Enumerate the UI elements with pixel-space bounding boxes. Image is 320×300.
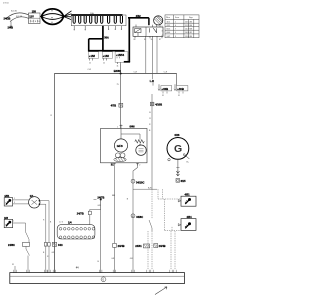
junction node E6/30 <box>120 73 122 75</box>
sender resistor <box>121 134 140 140</box>
connector box +40B right <box>174 84 188 97</box>
switch contact <box>26 232 30 243</box>
svg-text:4: 4 <box>162 35 163 37</box>
svg-text:1: 1 <box>175 21 176 23</box>
fuse box 11/1 <box>71 15 126 26</box>
ground point E <box>101 277 106 282</box>
svg-text:C-R: C-R <box>88 69 92 71</box>
svg-text:+40B: +40B <box>161 87 168 91</box>
svg-text:34/8C: 34/8C <box>136 215 143 219</box>
svg-text:6/46: 6/46 <box>130 125 136 129</box>
sender connector 24/4B <box>113 243 117 247</box>
multi-pin connector strip 1/4 <box>57 221 95 239</box>
svg-text:3: 3 <box>162 31 163 33</box>
svg-text:9: 9 <box>175 32 176 34</box>
lamp switch box 8/3 left <box>4 216 14 228</box>
svg-text:6/25: 6/25 <box>167 29 171 31</box>
svg-text:1: 1 <box>162 22 163 24</box>
svg-text:14 28 68: 14 28 68 <box>185 29 192 31</box>
combination gauge 1/1 <box>29 194 41 208</box>
svg-text:158: 158 <box>32 10 37 13</box>
warning lamp box 4/54 <box>178 215 196 230</box>
svg-text:C-R: C-R <box>164 71 168 73</box>
svg-text:24/6C: 24/6C <box>8 243 15 247</box>
fuse elements <box>73 16 122 23</box>
svg-text:4: 4 <box>175 25 176 27</box>
wire from 31 pin down x152 <box>151 94 153 189</box>
component table top right <box>165 15 199 38</box>
svg-text:1 2 3: 1 2 3 <box>59 222 63 224</box>
dashed links to indicator lamps <box>148 189 181 270</box>
svg-text:Wire: Wire <box>166 16 170 19</box>
svg-text:31: 31 <box>12 264 14 266</box>
fuse output stubs <box>74 26 121 30</box>
wire from feed box to junction <box>120 64 122 74</box>
switch contact near x152 <box>151 189 153 219</box>
svg-text:24/2: 24/2 <box>167 36 171 38</box>
sender unit box 6/46 <box>101 125 148 163</box>
svg-text:24/2B: 24/2B <box>4 16 11 20</box>
svg-text:1/4: 1/4 <box>68 221 72 225</box>
grommet circle hatched <box>154 16 163 27</box>
svg-text:+15/I: +15/I <box>89 54 95 58</box>
cable loom lens <box>42 9 64 25</box>
thick feed wire from fuse <box>102 26 104 52</box>
ground bus bar <box>10 273 185 284</box>
svg-text:E6/30: E6/30 <box>114 69 121 73</box>
wire to sender <box>120 74 122 129</box>
svg-text:8/3: 8/3 <box>4 216 8 220</box>
inline connector 7 34/10C <box>131 179 135 183</box>
thick branch left <box>89 38 104 40</box>
svg-text:24/4B: 24/4B <box>159 244 166 248</box>
relay 2/32 <box>133 15 163 41</box>
feed label box +15I mid <box>102 52 112 65</box>
pump motor with base <box>114 153 126 162</box>
svg-text:14 86 82: 14 86 82 <box>185 32 192 34</box>
fuel gauge sender GF6 <box>114 139 127 152</box>
small connector boxes row left <box>44 243 47 247</box>
svg-text:1/1: 1/1 <box>30 194 34 198</box>
relay thick supply line <box>128 17 149 19</box>
svg-text:2: 2 <box>14 198 15 200</box>
svg-text:11 28 64: 11 28 64 <box>185 25 192 27</box>
inline connector B4/10 <box>150 102 154 106</box>
generator output wire <box>177 159 179 170</box>
arrow off-page under G <box>176 170 179 176</box>
svg-text:2/32: 2/32 <box>167 25 171 27</box>
gauge output wires <box>39 201 49 243</box>
junction node 24/7B <box>100 199 102 201</box>
wires switch to gauge <box>13 200 30 204</box>
svg-text:+15/54: +15/54 <box>116 53 125 57</box>
svg-text:6/46: 6/46 <box>167 32 171 34</box>
svg-text:Fuse: Fuse <box>175 17 179 19</box>
svg-text:3: 3 <box>175 36 176 38</box>
svg-text:30: 30 <box>151 39 153 41</box>
bus entry ticks <box>14 270 176 273</box>
svg-text:11: 11 <box>89 63 91 65</box>
svg-text:11: 11 <box>103 63 105 65</box>
svg-text:G: G <box>174 143 182 155</box>
inline connector 14 34/8C <box>131 214 135 218</box>
left long wire down <box>53 74 55 273</box>
ignition switch box 4/51 left <box>4 194 12 206</box>
svg-text:7: 7 <box>175 29 176 31</box>
sender signal wire <box>133 163 138 273</box>
svg-text:34/10C: 34/10C <box>136 180 144 184</box>
off-page arrow connector 2/4B <box>10 22 12 27</box>
wire switch to column <box>13 223 26 232</box>
thick distribution bar <box>88 50 125 52</box>
svg-text:4/54: 4/54 <box>187 215 193 219</box>
svg-text:24/7B: 24/7B <box>77 212 84 216</box>
svg-text:1: 1 <box>117 127 118 129</box>
wire junction to ground bus <box>100 200 102 273</box>
svg-text:11: 11 <box>117 66 119 68</box>
svg-text:GF6: GF6 <box>117 144 123 148</box>
svg-text:4/7B: 4/7B <box>111 104 117 108</box>
right elbow wire down <box>176 74 178 86</box>
svg-text:B-136: B-136 <box>11 11 18 13</box>
svg-text:2: 2 <box>139 165 140 167</box>
svg-text:E: E <box>103 277 105 281</box>
svg-text:2: 2 <box>162 26 163 28</box>
warning lamp box 4/51 <box>178 193 196 207</box>
svg-text:34C: 34C <box>58 243 63 247</box>
svg-text:C-R: C-R <box>134 71 138 73</box>
sender ground wire <box>113 166 115 244</box>
svg-text:24/4B: 24/4B <box>118 244 125 248</box>
svg-text:R-139: R-139 <box>16 16 23 18</box>
svg-text:24/7B: 24/7B <box>97 195 104 199</box>
svg-text:86: 86 <box>134 39 136 41</box>
wire arc B-139 top-left <box>10 17 29 22</box>
main horizontal wire <box>54 73 176 75</box>
wire battery to loom <box>40 15 42 17</box>
annotation arrow bottom right <box>155 287 167 295</box>
svg-text:2/4B: 2/4B <box>8 26 14 30</box>
svg-text:6/15: 6/15 <box>181 180 186 183</box>
svg-text:2/32: 2/32 <box>136 15 141 18</box>
svg-text:10 15 86: 10 15 86 <box>185 21 192 23</box>
sender rheostat circle <box>136 145 146 155</box>
svg-text:30A: 30A <box>104 37 109 40</box>
svg-text:11/1: 11/1 <box>167 21 171 23</box>
svg-text:1 8 10: 1 8 10 <box>3 3 9 5</box>
fan wires loom to fuse box <box>64 11 72 20</box>
svg-text:3: 3 <box>14 202 15 204</box>
feed label box +15I left <box>88 52 98 65</box>
battery 15B <box>29 10 41 23</box>
wire junction to connector strip <box>90 200 101 212</box>
svg-text:31: 31 <box>178 95 180 97</box>
wire arc B-136 top-left <box>6 13 29 19</box>
svg-text:B-R: B-R <box>148 187 152 189</box>
inline connector 24/4B on dashed wire right <box>154 244 158 248</box>
stub wire far left to bus <box>14 266 16 273</box>
svg-text:24/31: 24/31 <box>135 244 142 248</box>
relay output wires <box>145 38 147 73</box>
svg-text:+40B: +40B <box>177 87 184 91</box>
inline connector square 24/7B <box>88 211 91 214</box>
svg-text:BR: BR <box>112 195 115 197</box>
svg-text:4/51: 4/51 <box>185 193 191 197</box>
feed label box +15/54 right <box>115 52 128 68</box>
svg-text:4/51: 4/51 <box>4 194 10 198</box>
svg-text:15 66 84: 15 66 84 <box>185 36 192 38</box>
generator G <box>167 134 190 163</box>
svg-text:4/10B: 4/10B <box>155 103 162 107</box>
wires to bus left <box>46 246 55 273</box>
svg-text:6/26: 6/26 <box>175 134 180 137</box>
svg-text:87: 87 <box>159 39 161 41</box>
connector 6/46 under G <box>176 179 180 183</box>
svg-text:1: 1 <box>13 220 14 222</box>
svg-text:L.R: L.R <box>150 79 154 83</box>
svg-text:12V: 12V <box>29 15 34 18</box>
branch wire right <box>133 188 157 190</box>
connector box +40B left <box>158 84 172 97</box>
svg-text:31: 31 <box>162 95 164 97</box>
svg-text:Sign: Sign <box>189 17 193 19</box>
switch contact 2 <box>26 246 30 272</box>
svg-text:+15/I: +15/I <box>103 54 109 58</box>
